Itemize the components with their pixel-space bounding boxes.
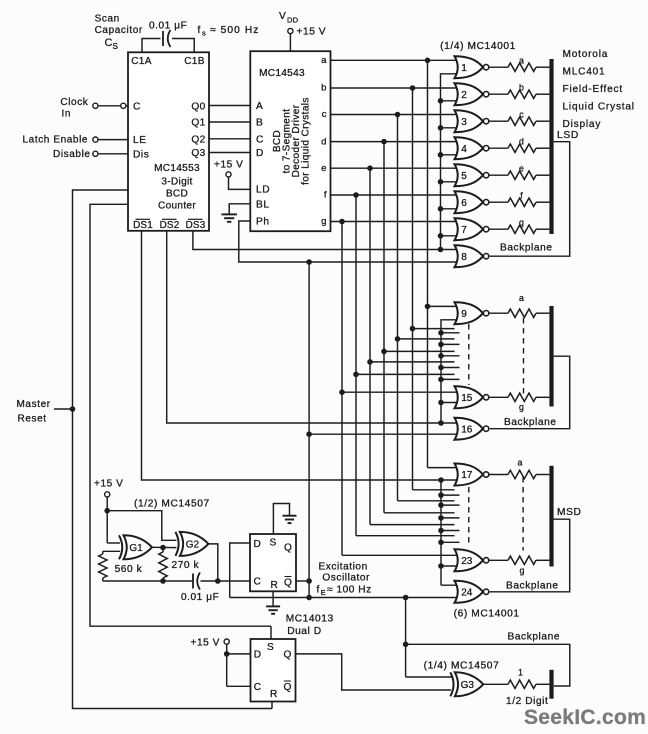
node segment b tap: [410, 85, 416, 91]
wire segment b vertical drop: [412, 88, 414, 490]
resistor segment g LSD: [508, 225, 536, 233]
node bus stub bank3: [438, 540, 444, 546]
svg-text:C: C: [133, 101, 141, 112]
wire G1 output to G2: [152, 546, 176, 548]
wire Q0 to A: [209, 105, 250, 107]
wire +15V to D and C: [226, 644, 228, 686]
nor gate 23 MC14001: [455, 549, 484, 571]
xor gate G3 MC14507: [450, 672, 453, 696]
wire g to gate 15: [342, 391, 459, 393]
resistor segment c LSD: [508, 117, 536, 125]
wire stub omitted gate input e bank2: [370, 361, 455, 363]
node segment e stub bank2: [367, 359, 373, 365]
wire segment g vertical drop: [341, 222, 343, 556]
svg-text:MC14553: MC14553: [154, 163, 200, 174]
node bus stub bank3: [438, 492, 444, 498]
svg-text:Q0: Q0: [191, 101, 205, 112]
svg-text:Backplane: Backplane: [506, 581, 559, 592]
wire bus to gate 6 input: [441, 208, 459, 210]
wire Q2 to C: [209, 138, 250, 140]
svg-text:LE: LE: [133, 135, 147, 146]
svg-text:≈ 100 Hz: ≈ 100 Hz: [327, 585, 372, 596]
wire DS2 digit select: [167, 231, 459, 423]
wire +15V to LD pin: [229, 177, 251, 189]
svg-text:DS2: DS2: [160, 220, 180, 231]
svg-text:Clock: Clock: [60, 97, 88, 108]
wire DS2 bus bank2: [441, 320, 459, 423]
svg-text:2: 2: [461, 90, 467, 101]
wire capacitor to C pin: [201, 580, 251, 582]
svg-text:Q: Q: [284, 650, 292, 661]
nor gate 24 MC14001 backplane driver digit 3: [455, 581, 484, 603]
resistor 270k: [162, 548, 164, 553]
scan capacitor CS 0.01uF: [142, 39, 161, 53]
wire bus stub bank3: [441, 517, 460, 519]
svg-text:≈ 500 Hz: ≈ 500 Hz: [210, 25, 260, 36]
wire bus to gate 7 input: [441, 235, 459, 237]
wire to G3 top input: [406, 676, 452, 678]
node DS1 bus bank3: [438, 477, 444, 483]
wire backplane LSD: [490, 142, 570, 257]
wire bus to gate 23: [441, 565, 459, 567]
node bus stub bank2: [438, 353, 444, 359]
wire bus stub bank3: [441, 530, 460, 532]
wire segment g from U2 to gate: [331, 221, 459, 223]
node Ph to gate16: [306, 431, 312, 437]
svg-text:Oscillator: Oscillator: [322, 573, 370, 584]
svg-text:Liquid Crystal: Liquid Crystal: [563, 102, 635, 113]
node bus stub bank3: [438, 528, 444, 534]
svg-text:D: D: [254, 539, 261, 550]
dashed omitted gates bank3: [468, 487, 470, 545]
svg-text:Display: Display: [563, 119, 602, 130]
svg-text:C1B: C1B: [184, 56, 205, 67]
svg-text:Q2: Q2: [191, 134, 205, 145]
svg-text:Q: Q: [284, 682, 292, 693]
wire to G2 input: [107, 511, 176, 541]
wire G2 output: [208, 544, 217, 581]
wire segment f vertical drop: [355, 195, 357, 536]
wire segment e from U2 to gate: [331, 167, 459, 169]
svg-text:16: 16: [461, 424, 473, 435]
svg-text:SeekIC.com: SeekIC.com: [524, 706, 646, 729]
resistor segment d LSD: [508, 144, 536, 152]
svg-text:S: S: [267, 642, 274, 653]
resistor 560k: [102, 551, 104, 554]
wire segment d from U2 to gate: [331, 141, 459, 143]
svg-text:C: C: [256, 134, 264, 145]
svg-text:g: g: [321, 216, 326, 227]
wire segment d vertical drop: [383, 142, 385, 513]
svg-text:+15 V: +15 V: [94, 479, 123, 490]
svg-text:LSD: LSD: [557, 130, 579, 141]
node bus stub bank2: [438, 365, 444, 371]
svg-text:Backplane: Backplane: [500, 242, 553, 253]
resistor segment e LSD: [508, 171, 536, 179]
node g gate15: [339, 389, 345, 395]
svg-text:e: e: [519, 163, 524, 173]
svg-text:Dual D: Dual D: [287, 626, 321, 637]
svg-text:Q: Q: [284, 578, 292, 589]
wire gate 4 output: [489, 147, 508, 149]
wire stub omitted gate input c bank3: [398, 500, 455, 502]
node bus bank1 gate 3: [438, 125, 444, 131]
svg-text:G1: G1: [129, 543, 143, 554]
node segment a tap: [425, 58, 431, 64]
node 270k tap: [160, 545, 166, 551]
svg-text:Q1: Q1: [191, 118, 205, 129]
nor gate 4 U3 MC14001: [455, 137, 484, 159]
wire segment a vertical drop: [427, 60, 429, 467]
svg-text:g: g: [520, 566, 525, 576]
node master reset tap: [70, 406, 76, 412]
node D supply: [224, 651, 230, 657]
wire g to gate 23: [342, 554, 459, 556]
wire stub omitted gate input f bank3: [356, 535, 455, 537]
dashed omitted resistors bank2: [523, 318, 525, 394]
wire Ph vertical: [308, 262, 310, 598]
resistor half digit 1: [508, 680, 536, 688]
svg-text:0.01 μF: 0.01 μF: [181, 592, 219, 603]
wire gate 15 output: [489, 396, 508, 398]
svg-text:b: b: [321, 83, 326, 94]
wire to G1 top input: [107, 542, 120, 544]
svg-text:Dis: Dis: [133, 149, 149, 160]
LCD bar half digit: [549, 670, 553, 699]
wire segment c from U2 to gate: [331, 114, 459, 116]
wire stub omitted gate input d bank3: [384, 512, 455, 514]
node bus bank1 gate 7: [438, 233, 444, 239]
LCD bus bar LSD digit: [549, 59, 553, 234]
svg-text:Capacitor: Capacitor: [95, 25, 143, 36]
wire backplane MSD: [490, 519, 570, 592]
node phase tee: [306, 595, 312, 601]
wire bus to gate 24: [441, 584, 459, 586]
wire bus stub bank2: [441, 332, 460, 334]
svg-text:D: D: [256, 148, 264, 159]
wire gate 7 output: [489, 228, 508, 230]
svg-text:Scan: Scan: [95, 14, 120, 25]
wire bus bank3: [440, 480, 442, 585]
wire segment a from U2 to gate: [331, 59, 459, 61]
svg-text:270 k: 270 k: [172, 560, 200, 571]
svg-text:+15 V: +15 V: [297, 27, 327, 38]
node segment c stub bank2: [395, 336, 401, 342]
xor gate G2 MC14507: [175, 532, 178, 556]
wire R to ground: [272, 591, 274, 606]
wire a to gate 9: [428, 305, 459, 307]
svg-text:a: a: [518, 458, 523, 468]
svg-text:b: b: [519, 82, 524, 92]
wire Ph backplane phase: [239, 221, 459, 262]
wire VDD to U2: [289, 34, 291, 52]
svg-text:Master: Master: [17, 399, 51, 410]
svg-text:Motorola: Motorola: [563, 49, 609, 60]
svg-text:f: f: [198, 25, 201, 36]
svg-text:560 k: 560 k: [115, 564, 143, 575]
resistor segment g MSD: [508, 556, 536, 564]
wire R to master reset rail: [271, 702, 273, 709]
svg-text:Disable: Disable: [53, 149, 91, 160]
nor gate 16 MC14001 backplane driver digit 2: [455, 418, 484, 440]
svg-text:C: C: [254, 682, 261, 693]
xor gate G1 MC14507: [119, 535, 122, 559]
svg-text:for Liquid Crystals: for Liquid Crystals: [300, 97, 311, 185]
nor gate 7 U3 MC14001: [455, 218, 484, 240]
wire backplane bottom loop: [406, 644, 570, 686]
nor gate 8 U3 MC14001: [455, 245, 484, 267]
node bottom backplane: [403, 642, 409, 648]
wire bus stub bank2: [441, 367, 460, 369]
LCD bus bar MSD digit: [549, 466, 553, 567]
wire master reset stub: [54, 408, 73, 410]
resistor segment a middle digit: [508, 309, 536, 317]
svg-text:G3: G3: [461, 680, 475, 691]
LCD bus bar middle digit: [549, 306, 553, 407]
resistor segment g middle digit: [508, 393, 536, 401]
wire bus to gate 3 input: [441, 127, 459, 129]
nor gate 6 U3 MC14001: [455, 191, 484, 213]
wire DS3 bus bank1: [441, 74, 459, 250]
wire stub omitted gate input e bank3: [370, 524, 455, 526]
wire Q output to G3: [296, 654, 452, 690]
svg-text:D: D: [254, 650, 261, 661]
svg-text:Field-Effect: Field-Effect: [563, 84, 623, 95]
svg-text:MC14543: MC14543: [259, 68, 305, 79]
resistor segment b LSD: [508, 90, 536, 98]
wire stub omitted gate input d bank2: [384, 350, 455, 352]
wire bus to gate 15: [441, 402, 459, 404]
svg-text:Q: Q: [284, 543, 292, 554]
wire bus to gate 4 input: [441, 154, 459, 156]
svg-text:G2: G2: [186, 539, 200, 550]
wire oscillator rail: [103, 580, 193, 582]
wire gate 23 output: [489, 559, 508, 561]
wire bus to gate 2 input: [441, 100, 459, 102]
nor gate 15 MC14001: [455, 386, 484, 408]
wire segment f from U2 to gate: [331, 194, 459, 196]
ground at R: [266, 605, 280, 607]
svg-text:e: e: [321, 163, 326, 174]
node Ph dot not needed: [455, 302, 484, 324]
svg-text:Backplane: Backplane: [508, 632, 561, 643]
resistor segment a LSD: [508, 63, 536, 71]
node segment d tap: [381, 139, 387, 145]
svg-text:+15 V: +15 V: [214, 160, 243, 171]
ground at S: [283, 515, 297, 517]
wire stub omitted gate input c bank2: [398, 338, 455, 340]
wire segment b from U2 to gate: [331, 87, 459, 89]
svg-text:E: E: [321, 588, 326, 597]
wire DS3 digit select: [193, 231, 459, 250]
wire to D: [227, 653, 251, 655]
node segment f stub bank2: [353, 372, 359, 378]
svg-text:Backplane: Backplane: [504, 417, 557, 428]
node 270k bottom: [160, 578, 166, 584]
node segment g tap: [339, 219, 345, 225]
svg-text:C1A: C1A: [131, 56, 152, 67]
svg-text:Latch Enable: Latch Enable: [23, 134, 89, 145]
wire gate 2 output: [489, 93, 508, 95]
node segment c tap: [395, 112, 401, 118]
wire BL to ground: [229, 204, 250, 215]
svg-text:17: 17: [461, 470, 473, 481]
node segment f tap: [353, 192, 359, 198]
svg-text:C: C: [105, 37, 113, 49]
node Ph branch: [306, 259, 312, 265]
svg-text:a: a: [321, 55, 327, 66]
svg-text:A: A: [256, 101, 263, 112]
wire Qbar to phase line: [296, 580, 309, 582]
wire Ph to gate 16 input: [309, 433, 458, 435]
capacitor 0.01uF oscillator: [192, 574, 194, 589]
wire phase line to gate 24: [230, 597, 459, 599]
wire gate 5 output: [489, 174, 508, 176]
svg-text:BL: BL: [256, 199, 270, 210]
wire stub omitted gate input b bank3: [413, 489, 455, 491]
node G2 output join: [215, 578, 221, 584]
counter U1 MC14553 3-digit BCD counter: [128, 52, 209, 231]
svg-text:S: S: [113, 42, 119, 51]
wire backplane branch to G3: [405, 598, 407, 678]
svg-text:6: 6: [461, 198, 467, 209]
node oscillator supply: [104, 508, 110, 514]
svg-text:Ph: Ph: [256, 217, 270, 228]
wire segment c vertical drop: [397, 115, 399, 501]
svg-text:9: 9: [461, 309, 467, 320]
svg-text:S: S: [270, 538, 277, 549]
wire bus stub bank2: [441, 343, 460, 345]
wire bus to gate 5 input: [441, 181, 459, 183]
svg-text:g: g: [519, 217, 524, 227]
svg-text:DS3: DS3: [186, 220, 206, 231]
svg-text:d: d: [519, 136, 524, 146]
wire bus stub bank2: [441, 378, 460, 380]
node bus stub bank2: [438, 342, 444, 348]
nor gate 3 U3 MC14001: [455, 110, 484, 132]
node Q-bar join: [306, 578, 312, 584]
node bus stub bank2: [438, 330, 444, 336]
svg-text:c: c: [519, 109, 524, 119]
svg-text:DD: DD: [287, 16, 299, 25]
svg-text:1: 1: [518, 668, 523, 678]
node segment d stub bank2: [381, 349, 387, 355]
node bus bank1 gate 5: [438, 179, 444, 185]
svg-text:1: 1: [461, 63, 467, 74]
svg-text:MLC401: MLC401: [563, 67, 606, 78]
svg-text:BCD: BCD: [166, 189, 188, 200]
node bus bank1 gate 6: [438, 206, 444, 212]
svg-text:0.01 μF: 0.01 μF: [149, 20, 187, 31]
svg-text:B: B: [256, 118, 263, 129]
wire to C: [227, 685, 251, 687]
svg-text:24: 24: [461, 587, 473, 598]
svg-text:LD: LD: [256, 185, 270, 196]
svg-text:DS1: DS1: [133, 220, 153, 231]
svg-text:8: 8: [461, 252, 467, 263]
wire gate 9 output: [489, 312, 508, 314]
decoder U2 MC14543 BCD to 7-segment decoder driver: [250, 51, 330, 231]
node segment b stub bank2: [410, 326, 416, 332]
wire DS1 digit select: [142, 231, 459, 480]
wire S from OF: [270, 626, 272, 639]
wire bus stub bank3: [441, 504, 460, 506]
node bus bank1 DS3: [438, 247, 444, 253]
node bus stub bank2: [438, 377, 444, 383]
wire segment e vertical drop: [369, 168, 371, 524]
svg-text:3: 3: [461, 117, 467, 128]
wire gate 17 output: [489, 474, 508, 476]
node bus bank1 gate 2: [438, 98, 444, 104]
svg-text:Excitation: Excitation: [319, 562, 368, 573]
wire bus stub bank2: [441, 355, 460, 357]
svg-text:V: V: [279, 11, 286, 22]
wire stub omitted gate input f bank2: [356, 373, 455, 375]
svg-text:a: a: [519, 55, 524, 65]
nor gate 17 MC14001: [455, 464, 484, 486]
wire G1 bottom input: [103, 550, 120, 552]
node bus stub bank3: [438, 502, 444, 508]
svg-text:(1/4) MC14507: (1/4) MC14507: [424, 661, 500, 672]
svg-text:23: 23: [461, 556, 473, 567]
wire Q1 to B: [209, 121, 250, 123]
svg-text:R: R: [270, 689, 277, 700]
svg-text:In: In: [62, 109, 72, 120]
node bus gate16 top: [438, 420, 444, 426]
node bus bank1 gate 4: [438, 152, 444, 158]
nor gate 5 U3 MC14001: [455, 164, 484, 186]
svg-text:s: s: [202, 29, 206, 38]
nor gate 2 U3 MC14001: [455, 83, 484, 105]
resistor segment a MSD: [508, 470, 536, 478]
wire Q3 to D: [209, 152, 250, 154]
svg-text:R: R: [271, 580, 278, 591]
svg-text:f: f: [317, 585, 320, 596]
node bus gate15: [438, 400, 444, 406]
node a gate9: [425, 304, 431, 310]
wire gate 1 output: [489, 66, 508, 68]
dashed omitted resistors bank3: [522, 477, 524, 551]
wire D feedback loop: [230, 543, 250, 598]
wire gate 3 output: [489, 120, 508, 122]
svg-text:Reset: Reset: [18, 414, 47, 425]
svg-text:+15 V: +15 V: [191, 638, 220, 649]
svg-text:5: 5: [461, 171, 467, 182]
svg-text:7: 7: [461, 225, 467, 236]
flip-flop U4a MC14013 excitation oscillator: [250, 534, 296, 591]
svg-text:Q3: Q3: [191, 148, 205, 159]
svg-text:(1/2) MC14507: (1/2) MC14507: [134, 499, 210, 510]
node bus gate23: [438, 563, 444, 569]
wire a to gate 17: [428, 467, 459, 469]
wire S to ground: [273, 504, 289, 535]
svg-text:Counter: Counter: [158, 201, 196, 212]
node segment e tap: [367, 165, 373, 171]
svg-text:g: g: [519, 402, 524, 412]
svg-text:f: f: [324, 190, 327, 201]
svg-text:d: d: [321, 136, 326, 147]
wire +15V to gates: [106, 497, 108, 543]
svg-text:(1/4) MC14001: (1/4) MC14001: [440, 41, 516, 52]
svg-text:C: C: [254, 577, 261, 588]
dashed omitted gates bank2: [468, 324, 470, 385]
svg-text:MSD: MSD: [557, 507, 581, 518]
node backplane drop: [403, 595, 409, 601]
resistor segment f LSD: [508, 198, 536, 206]
wire backplane middle digit: [490, 356, 570, 429]
nor gate 1 U3 MC14001: [455, 56, 484, 78]
svg-text:c: c: [322, 109, 327, 120]
